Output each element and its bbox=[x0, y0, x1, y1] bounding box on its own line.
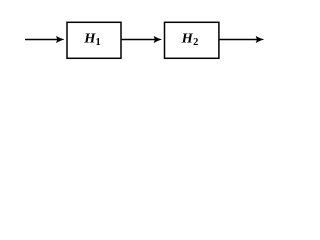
wire input arrow bbox=[25, 36, 64, 42]
wire between H1 and H2 bbox=[122, 36, 162, 42]
block H1 bbox=[67, 22, 121, 58]
block H2 bbox=[165, 22, 219, 58]
svg-text:2: 2 bbox=[193, 37, 198, 48]
svg-text:1: 1 bbox=[96, 37, 101, 48]
svg-text:H: H bbox=[181, 32, 194, 47]
wire output arrow bbox=[219, 36, 263, 42]
